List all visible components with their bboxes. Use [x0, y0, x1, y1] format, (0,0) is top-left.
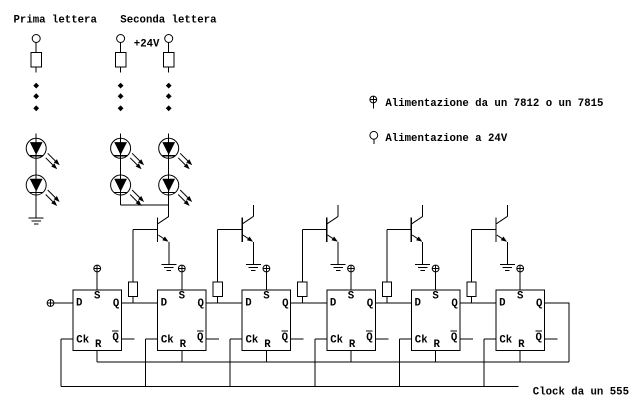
wire Qbar stub U5: [460, 338, 473, 340]
wire Q U3 to D U4: [291, 302, 327, 304]
dotted continuation column 1: [33, 83, 39, 112]
wire Ck U6 to clock rail: [484, 339, 496, 387]
wire Ck U1 to clock rail: [61, 339, 73, 387]
resistor column 1: [31, 53, 41, 67]
dotted continuation column 2: [118, 83, 124, 112]
LED D1 column 2: [111, 138, 145, 169]
wire Ck U2 to clock rail: [146, 339, 158, 387]
wire emitter Q3: [337, 242, 339, 265]
wire column 2 to column 3 join: [121, 204, 169, 206]
label +24V: [134, 39, 160, 51]
label Clock da un 555: [533, 386, 629, 398]
wire R pin U1: [96, 351, 98, 362]
wire resistor R1 to Q line: [132, 297, 134, 304]
U5 label S: [432, 291, 439, 303]
transistor Q3: [327, 216, 338, 242]
svg-text:Q: Q: [451, 298, 458, 310]
svg-text:D: D: [330, 297, 336, 309]
svg-text:S: S: [432, 291, 439, 303]
U6 label D: [499, 297, 505, 309]
wire R pin U6: [519, 351, 521, 362]
svg-text:Alimentazione da un 7812 o un: Alimentazione da un 7812 o un 7815: [385, 98, 603, 110]
wire column 3 below resistor: [168, 67, 170, 72]
wire R pin U3: [265, 351, 267, 362]
LED D2 column 1: [26, 175, 60, 206]
reset rail: [97, 361, 569, 363]
U4 label Qbar: [366, 331, 373, 344]
wire base Q2: [218, 230, 242, 283]
U3 label Q: [282, 298, 289, 310]
U2 label Q: [198, 298, 205, 310]
7812 supply node at U3 S pin: [263, 265, 270, 272]
7812 supply node at U2 S pin: [178, 265, 185, 272]
U3 label Qbar: [281, 331, 288, 344]
svg-text:S: S: [94, 291, 101, 303]
flip-flop U3: [242, 290, 291, 351]
wire S pin U5: [435, 272, 437, 290]
svg-text:D: D: [415, 297, 421, 309]
wire Qbar stub U6: [545, 338, 558, 340]
svg-text:Ck: Ck: [76, 335, 89, 347]
svg-text:S: S: [263, 291, 270, 303]
U5 label R: [434, 339, 441, 351]
U6 label Ck: [499, 335, 512, 347]
wire Qbar stub U1: [121, 338, 134, 340]
svg-text:R: R: [518, 339, 525, 351]
U5 label Qbar: [451, 331, 458, 344]
wire Q U1 to D U2: [121, 302, 157, 304]
wire base Q4: [387, 230, 411, 283]
U6 label S: [517, 291, 524, 303]
7812 supply node at U5 S pin: [432, 265, 439, 272]
svg-text:Q: Q: [282, 298, 289, 310]
svg-text:Clock da un 555: Clock da un 555: [533, 386, 629, 398]
wire resistor R2 to Q line: [217, 297, 219, 304]
dotted continuation column 3: [166, 83, 172, 112]
svg-text:Q: Q: [113, 298, 120, 310]
svg-text:D: D: [161, 297, 167, 309]
wire column 3 LED chain: [168, 134, 170, 206]
transistor Q5: [496, 216, 507, 242]
svg-text:Ck: Ck: [499, 335, 512, 347]
7812 supply node at U6 S pin: [517, 265, 524, 272]
LED D1 column 1: [26, 138, 60, 169]
flip-flop U2: [158, 290, 207, 351]
wire R pin U5: [435, 351, 437, 362]
U6 label Qbar: [535, 331, 542, 344]
legend text 7812/7815: [385, 98, 603, 110]
svg-text:Q: Q: [367, 298, 374, 310]
svg-text:Ck: Ck: [415, 335, 428, 347]
svg-text:Q: Q: [198, 298, 205, 310]
wire collector stub Q3: [337, 205, 339, 217]
U4 label R: [349, 339, 356, 351]
wire collector Q1 from LED chain: [168, 205, 170, 216]
svg-text:S: S: [179, 291, 186, 303]
resistor base R1: [129, 282, 138, 296]
U6 label R: [518, 339, 525, 351]
svg-text:Q: Q: [536, 332, 543, 344]
U1 label Q: [113, 298, 120, 310]
wire collector stub Q2: [252, 205, 254, 217]
LED D2 column 3: [159, 175, 193, 206]
resistor base R5: [467, 282, 476, 296]
U2 label Qbar: [197, 331, 204, 344]
transistor Q1: [158, 216, 169, 242]
U6 label Q: [536, 298, 543, 310]
wire resistor R5 to Q line: [471, 297, 473, 304]
wire base Q3: [302, 230, 327, 283]
svg-text:R: R: [434, 339, 441, 351]
wire column 1 terminal to resistor: [35, 43, 37, 53]
7812 supply node at U1 D input: [47, 300, 54, 307]
U3 label S: [263, 291, 270, 303]
wire S pin U4: [350, 272, 352, 290]
wire column 1 below resistor: [35, 67, 37, 72]
U1 label Qbar: [112, 331, 119, 344]
ground emitter Q1: [161, 265, 176, 271]
wire Qbar stub U4: [375, 338, 388, 340]
ground emitter Q2: [246, 265, 261, 271]
resistor base R3: [298, 282, 307, 296]
U5 label Q: [451, 298, 458, 310]
24V supply terminal column 1: [32, 35, 40, 43]
resistor base R2: [213, 282, 222, 296]
wire R pin U4: [350, 351, 352, 362]
wire column 1 LED chain: [35, 134, 37, 219]
svg-text:R: R: [349, 339, 356, 351]
svg-text:Alimentazione a 24V: Alimentazione a 24V: [385, 133, 507, 145]
U2 label R: [180, 339, 187, 351]
24V supply terminal column 3: [165, 35, 173, 43]
wire collector stub Q4: [422, 205, 424, 217]
U5 label D: [415, 297, 421, 309]
U2 label D: [161, 297, 167, 309]
wire base Q1: [133, 230, 157, 283]
svg-text:Q: Q: [197, 332, 204, 344]
U3 label D: [245, 297, 251, 309]
U4 label D: [330, 297, 336, 309]
wire resistor R3 to Q line: [301, 297, 303, 304]
wire Qbar stub U3: [291, 338, 304, 340]
ground emitter Q5: [500, 265, 515, 271]
wire emitter Q4: [422, 242, 424, 265]
wire S pin U6: [519, 272, 521, 290]
svg-text:D: D: [499, 297, 505, 309]
U2 label Ck: [161, 335, 174, 347]
flip-flop U4: [327, 290, 376, 351]
svg-text:Ck: Ck: [161, 335, 174, 347]
wire Ck U3 to clock rail: [230, 339, 242, 387]
svg-text:S: S: [348, 291, 355, 303]
svg-text:Ck: Ck: [246, 335, 259, 347]
svg-text:Ck: Ck: [330, 335, 343, 347]
flip-flop U5: [411, 290, 460, 351]
U3 label R: [264, 339, 271, 351]
wire emitter Q2: [252, 242, 254, 265]
U3 label Ck: [246, 335, 259, 347]
wire S pin U1: [96, 272, 98, 290]
wire column 2 below resistor: [120, 67, 122, 72]
wire Q U4 to D U5: [375, 302, 411, 304]
svg-text:Q: Q: [451, 332, 458, 344]
LED D1 column 3: [159, 138, 193, 169]
svg-text:Q: Q: [366, 332, 373, 344]
svg-text:Q: Q: [112, 332, 119, 344]
wire R pin U2: [181, 351, 183, 362]
clock rail: [61, 386, 518, 388]
U1 label R: [95, 339, 102, 351]
svg-text:D: D: [245, 297, 251, 309]
transistor Q2: [242, 216, 253, 242]
svg-text:Q: Q: [536, 298, 543, 310]
wire column 2 terminal to resistor: [120, 43, 122, 53]
U4 label Ck: [330, 335, 343, 347]
svg-text:Q: Q: [282, 332, 289, 344]
svg-text:R: R: [180, 339, 187, 351]
svg-text:Prima lettera: Prima lettera: [14, 15, 98, 27]
ground emitter Q4: [415, 265, 430, 271]
7812 supply node at U4 S pin: [348, 265, 355, 272]
wire Q U2 to D U3: [206, 302, 242, 304]
7812 supply node at U1 S pin: [94, 265, 101, 272]
resistor base R4: [382, 282, 391, 296]
svg-text:+24V: +24V: [134, 39, 160, 51]
svg-text:R: R: [264, 339, 271, 351]
U1 label D: [76, 297, 82, 309]
wire Ck U5 to clock rail: [399, 339, 411, 387]
wire Qbar stub U2: [206, 338, 219, 340]
U4 label S: [348, 291, 355, 303]
label Prima lettera: [14, 15, 98, 27]
wire D input U1: [54, 302, 73, 304]
U1 label Ck: [76, 335, 89, 347]
flip-flop U6: [496, 290, 545, 351]
svg-text:Seconda lettera: Seconda lettera: [120, 15, 217, 27]
U1 label S: [94, 291, 101, 303]
resistor column 3: [164, 53, 174, 67]
resistor column 2: [115, 53, 125, 67]
svg-text:R: R: [95, 339, 102, 351]
wire Q U5 to D U6: [460, 302, 496, 304]
24V supply terminal column 2: [117, 35, 125, 43]
ground emitter Q3: [331, 265, 346, 271]
wire base Q5: [472, 230, 496, 283]
LED D2 column 2: [111, 175, 145, 206]
wire Ck U4 to clock rail: [315, 339, 327, 387]
wire S pin U3: [265, 272, 267, 290]
label Seconda lettera: [120, 15, 217, 27]
wire emitter Q1: [168, 242, 170, 265]
U5 label Ck: [415, 335, 428, 347]
wire emitter Q5: [506, 242, 508, 265]
svg-text:D: D: [76, 297, 82, 309]
flip-flop U1: [73, 290, 122, 351]
wire column 3 terminal to resistor: [168, 43, 170, 53]
wire resistor R4 to Q line: [386, 297, 388, 304]
wire collector stub Q5: [506, 205, 508, 217]
legend symbol 24V supply: [370, 131, 378, 144]
legend text 24V: [385, 133, 507, 145]
wire Q U6 to reset rail: [545, 303, 570, 362]
svg-text:S: S: [517, 291, 524, 303]
legend symbol 7812/7815 supply: [370, 96, 377, 108]
U2 label S: [179, 291, 186, 303]
ground column 1: [29, 218, 44, 224]
transistor Q4: [411, 216, 422, 242]
wire S pin U2: [181, 272, 183, 290]
wire column 2 LED chain: [120, 134, 122, 206]
U4 label Q: [367, 298, 374, 310]
